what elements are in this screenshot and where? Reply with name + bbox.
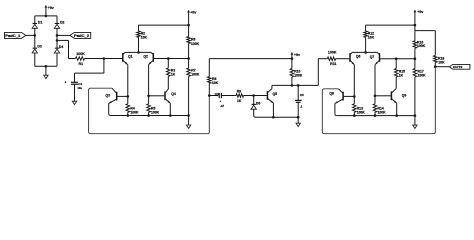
wire Q5 emitter down (272, 103, 274, 117)
wire node to Q5 base (254, 95, 267, 97)
wire up to R11 (317, 59, 319, 86)
resistor R18 10K (434, 56, 438, 63)
svg-text:100K: 100K (357, 111, 366, 115)
wire Q7 emitter down (374, 65, 376, 96)
svg-text:10K: 10K (212, 81, 219, 85)
diode D2 (55, 23, 59, 25)
wire Q4 emitter down (169, 103, 171, 115)
svg-text:Q3: Q3 (105, 94, 110, 98)
wire bridge left column (34, 16, 36, 24)
svg-text:.47: .47 (220, 104, 225, 108)
resistor R16 100K (414, 25, 416, 41)
wire Q1 emitter down (127, 65, 129, 97)
svg-text:100K: 100K (151, 111, 160, 115)
wire collector bar stage1 (125, 51, 151, 53)
wire to C4 (209, 95, 218, 97)
svg-text:1K: 1K (171, 73, 176, 77)
svg-text:Q8: Q8 (329, 92, 334, 96)
power +9v (stage2 input) (291, 57, 294, 60)
resistor R12 10K (365, 37, 367, 52)
ground (C1) (72, 101, 76, 104)
resistor R10 100K (291, 59, 293, 69)
svg-text:R9: R9 (237, 89, 241, 93)
svg-text:+9v: +9v (48, 6, 54, 10)
svg-text:100K: 100K (328, 50, 337, 54)
svg-text:D4: D4 (59, 45, 63, 49)
diode D4 (55, 47, 59, 49)
connector PadC_2 (70, 32, 91, 38)
svg-text:D2: D2 (60, 20, 64, 24)
wire D6 to bar (254, 109, 256, 117)
svg-text:+: + (65, 80, 67, 84)
wire Q9 emitter down (396, 103, 398, 115)
resistor R2 10K (138, 37, 140, 52)
resistor R3 1K (167, 59, 169, 69)
svg-text:C4: C4 (215, 92, 219, 96)
diode D6 (252, 103, 256, 105)
svg-text:R11: R11 (330, 62, 336, 66)
power +9v (input bridge) (45, 6, 47, 16)
wire node to C1 (103, 59, 105, 74)
svg-text:100K: 100K (191, 42, 200, 46)
wire bridge top bar (35, 15, 57, 17)
svg-text:100K: 100K (191, 73, 200, 77)
wire Q8 emitter down (334, 103, 336, 113)
transistor Q9 (390, 91, 392, 100)
ground (stage2) (414, 114, 417, 117)
wire Q6 emitter down (353, 65, 355, 97)
svg-text:C1: C1 (78, 82, 82, 86)
transistor Q2 (152, 53, 154, 62)
wire box1 interior bar (111, 115, 189, 117)
wire R9 to node (244, 95, 254, 97)
ground (stage1) (187, 114, 190, 117)
svg-text:1K: 1K (237, 99, 242, 103)
transistor Q3 (116, 92, 118, 101)
svg-text:100K: 100K (417, 44, 426, 48)
resistor R17 100K (414, 59, 416, 69)
wire C1 to ground (74, 84, 76, 101)
svg-text:100K: 100K (294, 74, 303, 78)
svg-text:100K: 100K (130, 111, 139, 115)
wire box2 loop (Q8 collector route) (322, 67, 435, 134)
transistor Q4 (164, 91, 166, 100)
wire bridge bottom bar (35, 65, 57, 67)
wire R3 to Q4 collector (167, 76, 169, 89)
svg-text:100K: 100K (378, 111, 387, 115)
diode D1 (33, 23, 37, 25)
wire +9v feed rail (middle) (209, 58, 292, 60)
wire to output pad (435, 66, 449, 68)
transistor Q1 (122, 53, 124, 62)
resistor R5 100K (148, 96, 150, 104)
connector PadC_1 (5, 32, 26, 38)
svg-text:PadC_2: PadC_2 (74, 34, 89, 38)
svg-text:10u: 10u (77, 86, 82, 90)
svg-text:.1: .1 (300, 105, 303, 109)
wire Q5 collector up (271, 85, 273, 88)
svg-text:10K: 10K (368, 35, 375, 39)
svg-text:Q9: Q9 (402, 94, 407, 98)
svg-text:Q7: Q7 (370, 55, 375, 59)
resistor R1 100K (69, 58, 76, 60)
svg-text:Q2: Q2 (143, 55, 148, 59)
capacitor C5 (297, 85, 299, 100)
wire Q9 base (375, 95, 391, 97)
wire Q3 base (117, 95, 128, 97)
transistor Q6 (349, 53, 351, 62)
resistor R11 100K (327, 57, 335, 61)
svg-text:1K: 1K (399, 74, 404, 78)
wire pad2 to bridge (57, 34, 70, 36)
wire +9v rail stage1 (139, 24, 189, 26)
resistor R9 1K (236, 94, 244, 98)
svg-text:Q6: Q6 (356, 55, 361, 59)
svg-text:100K: 100K (76, 52, 85, 56)
resistor R14 100K (374, 96, 376, 104)
svg-text:D6: D6 (256, 102, 260, 106)
wire collector bar stage2 (352, 51, 377, 53)
svg-text:R6: R6 (191, 38, 195, 42)
resistor R13 100K (353, 96, 355, 103)
capacitor C1 (71, 81, 78, 83)
wire node to D6 (253, 96, 255, 105)
wire box2 interior bar (337, 115, 415, 117)
svg-text:R1: R1 (78, 62, 83, 66)
wire Q5 collector node rail (272, 84, 318, 86)
wire box1 loop (Q3 collector route) (89, 88, 210, 134)
svg-text:D1: D1 (38, 20, 42, 24)
wire R1 to Q1 base (85, 58, 123, 60)
ground (bridge) (45, 66, 47, 75)
svg-text:100K: 100K (418, 74, 427, 78)
node R8/C4 junction (208, 94, 211, 97)
ground (middle) (297, 117, 299, 123)
svg-text:D3: D3 (37, 45, 41, 49)
transistor Q8 (342, 92, 344, 101)
wire R15 to Q9 collector (395, 77, 397, 89)
wire pad1 to bridge (26, 34, 35, 36)
svg-text:+9v: +9v (294, 53, 300, 57)
resistor R4 100K (127, 96, 129, 103)
wire Q8 base (344, 95, 355, 97)
svg-text:10K: 10K (438, 60, 445, 64)
resistor R7 100K (188, 59, 190, 69)
wire middle bottom bar (256, 116, 299, 118)
wire +9v rail stage2 (366, 24, 415, 26)
transistor Q5 (266, 91, 268, 100)
power +9v (stage2 bias) (414, 11, 416, 25)
resistor R6 100K (188, 25, 190, 36)
svg-text:Q5: Q5 (273, 92, 278, 96)
resistor R8 10K (208, 59, 210, 77)
svg-text:PadC_1: PadC_1 (5, 34, 20, 38)
wire +9v jog to R18 column (415, 30, 435, 32)
wire bridge to R1 (56, 39, 59, 42)
svg-text:+9v: +9v (190, 11, 196, 15)
wire Q3 emitter down (108, 103, 110, 113)
power +9v (stage1 bias) (188, 11, 190, 25)
connector OUT (449, 64, 470, 69)
wire Q4 base (149, 95, 165, 97)
wire Q7 base rail (380, 58, 415, 60)
svg-text:C5: C5 (300, 93, 304, 97)
wire Q2 emitter down (148, 65, 150, 96)
svg-text:Q1: Q1 (128, 54, 133, 58)
resistor R15 1K (395, 59, 397, 69)
wire C4 to R9 (221, 95, 236, 97)
wire bridge right column (56, 16, 58, 24)
wire Q2 base rail (154, 58, 189, 60)
svg-text:10K: 10K (141, 35, 148, 39)
capacitor C4 (218, 93, 220, 98)
svg-text:+9v: +9v (417, 10, 423, 14)
svg-text:Q4: Q4 (171, 92, 176, 96)
diode D3 (33, 47, 37, 49)
transistor Q7 (379, 53, 381, 62)
svg-text:OUT2: OUT2 (453, 65, 463, 69)
